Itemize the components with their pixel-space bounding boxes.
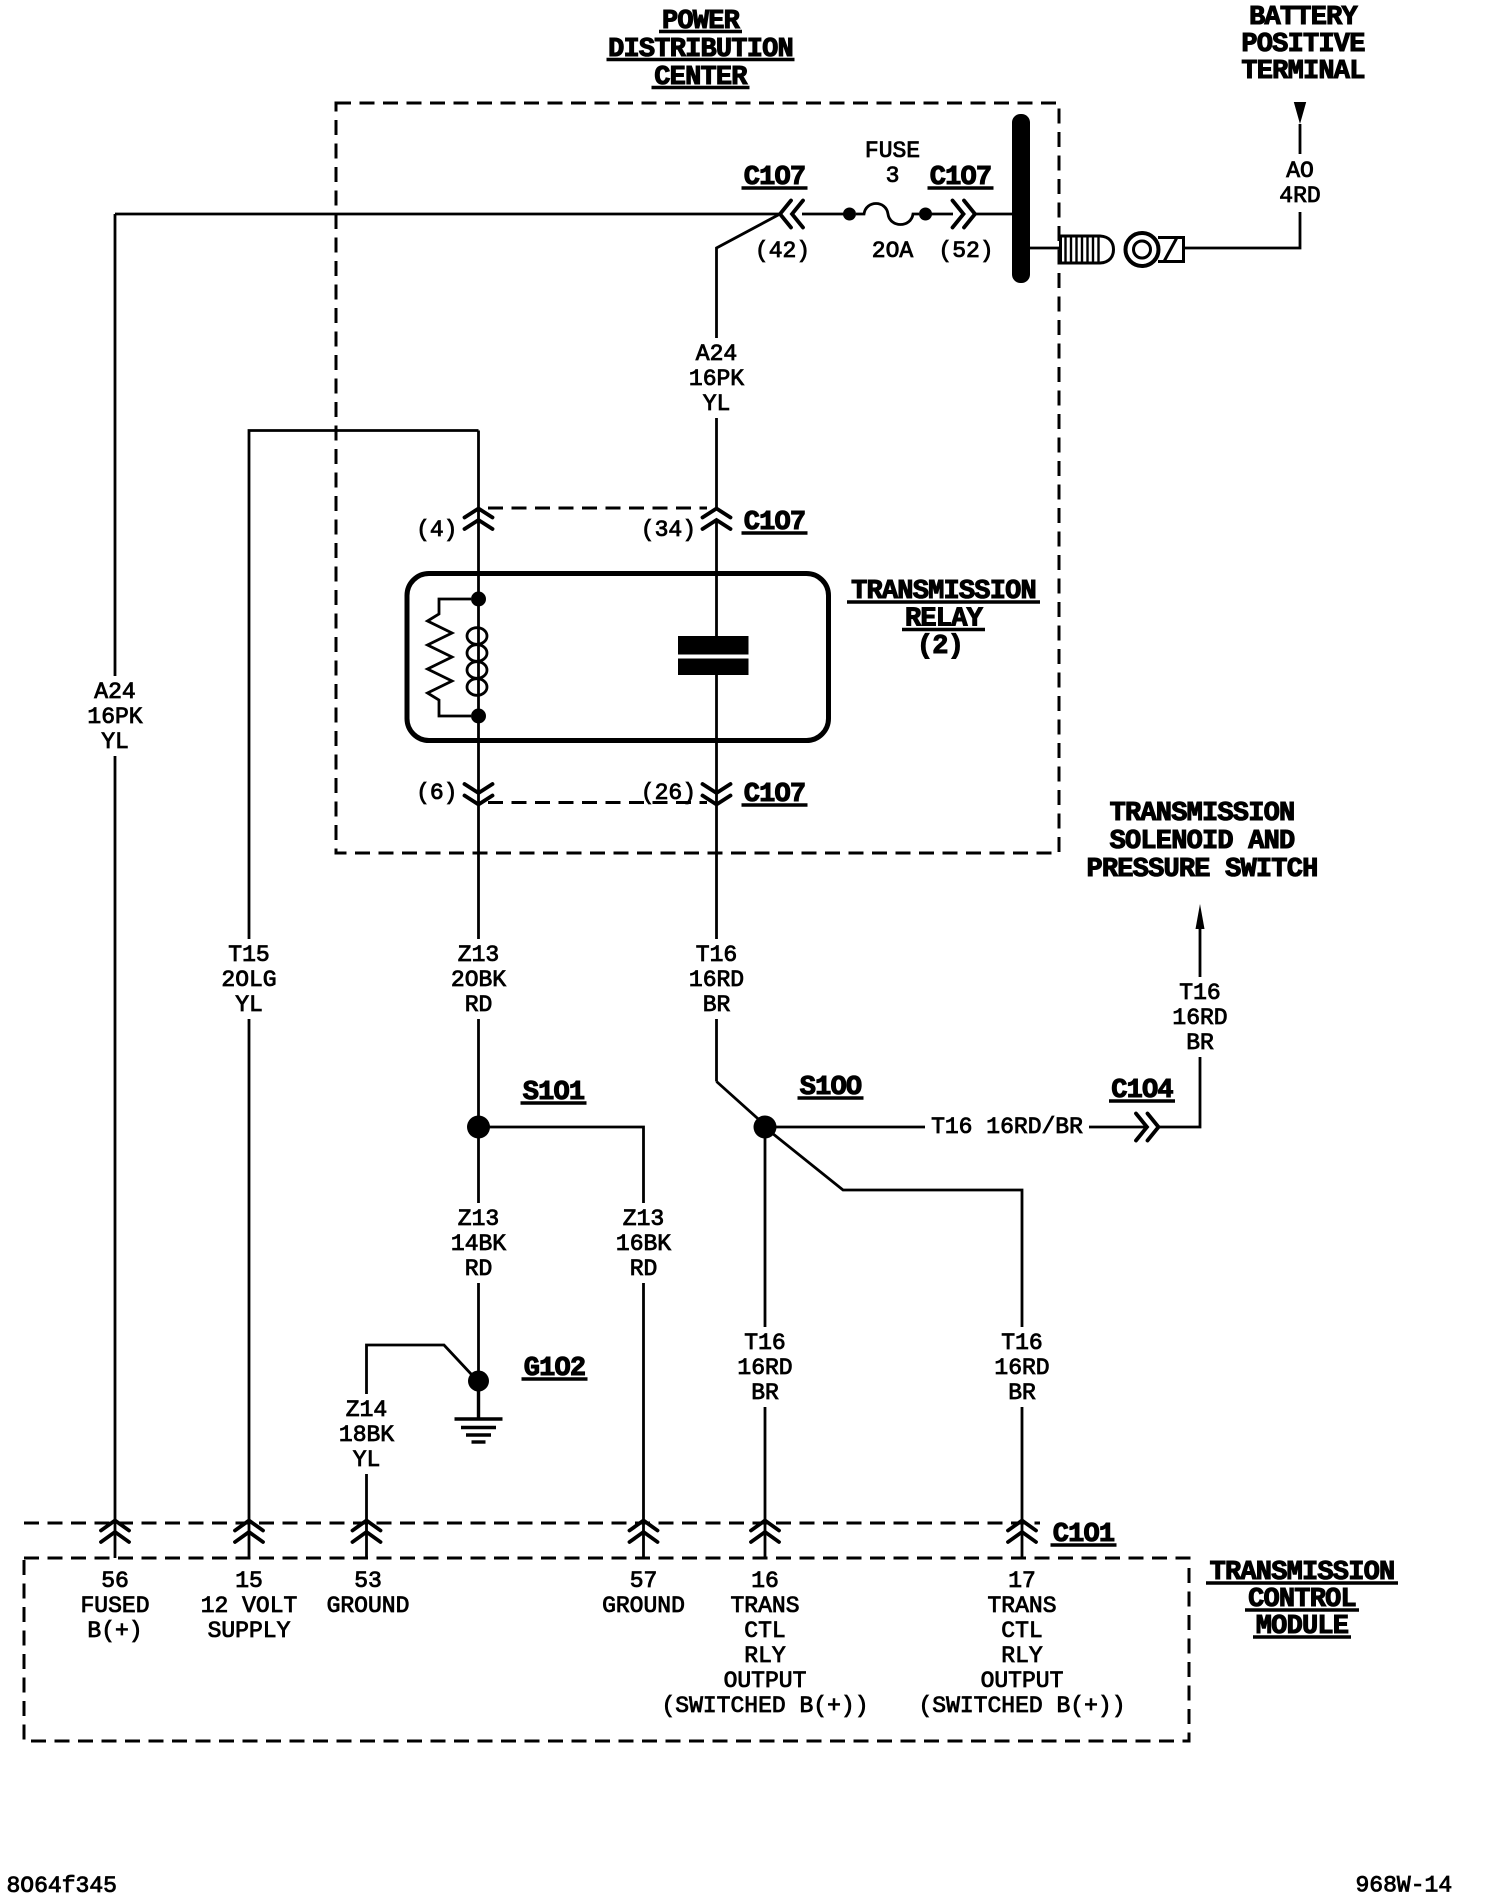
svg-text:2OA: 2OA: [872, 238, 914, 264]
TCM pin 56 labels: [80, 1568, 149, 1644]
svg-text:16RD: 16RD: [689, 967, 744, 993]
wire: main coil vertical Z13/relay: [477, 431, 480, 1382]
svg-text:4RD: 4RD: [1279, 183, 1320, 209]
svg-text:GROUND: GROUND: [602, 1593, 685, 1619]
svg-text:TERMINAL: TERMINAL: [1241, 57, 1364, 87]
svg-text:POSITIVE: POSITIVE: [1241, 30, 1365, 60]
svg-text:16RD: 16RD: [1172, 1005, 1227, 1031]
svg-text:15: 15: [235, 1568, 263, 1594]
connector C107 chevrons (42) pointing left: [780, 201, 803, 228]
svg-text:Z14: Z14: [346, 1397, 387, 1423]
connector C107 chevrons (6) pointing down: [465, 784, 493, 805]
connector C107 chevrons (4) pointing up: [465, 509, 493, 530]
svg-text:B(+): B(+): [87, 1618, 142, 1644]
connector designator C107 (26 row): [742, 780, 808, 810]
svg-text:2OBK: 2OBK: [451, 967, 506, 993]
wire: S100 to C104 horizontal: [765, 1126, 1147, 1129]
wire label T15 20LG YL: [221, 939, 277, 1019]
svg-text:TRANS: TRANS: [987, 1593, 1056, 1619]
battery positive terminal bus bar: [1012, 114, 1030, 283]
svg-text:GROUND: GROUND: [327, 1593, 410, 1619]
wire: C104 to solenoid riser: [1159, 929, 1201, 1127]
svg-text:BATTERY: BATTERY: [1249, 3, 1358, 33]
svg-text:OUTPUT: OUTPUT: [724, 1668, 807, 1694]
transmission relay outline: [407, 574, 829, 741]
svg-text:17: 17: [1008, 1568, 1036, 1594]
battery ring terminal eyelet: [1126, 233, 1184, 266]
svg-text:YL: YL: [235, 992, 263, 1018]
svg-text:(6): (6): [416, 780, 457, 806]
transmission control module dashed box: [24, 1558, 1189, 1741]
svg-text:OUTPUT: OUTPUT: [981, 1668, 1064, 1694]
svg-text:(34): (34): [641, 517, 696, 543]
wire label A24 16PK YL (relay feed): [689, 338, 744, 418]
connector designator C107 (top right): [928, 163, 994, 193]
svg-text:(SWITCHED B(+)): (SWITCHED B(+)): [661, 1693, 868, 1719]
svg-text:SOLENOID AND: SOLENOID AND: [1110, 827, 1295, 857]
svg-text:TRANS: TRANS: [730, 1593, 799, 1619]
svg-text:(4): (4): [416, 517, 457, 543]
node A0 4RD label: [1278, 154, 1324, 212]
relay suppression resistor zigzag: [428, 599, 472, 716]
connector C101 chevrons pin 17: [1008, 1521, 1036, 1543]
connector C101 chevrons pin 57: [630, 1521, 658, 1543]
connector C107 dashed line (6)/(26): [488, 801, 707, 804]
svg-text:YL: YL: [703, 391, 731, 417]
svg-text:16RD: 16RD: [737, 1355, 792, 1381]
wire: diagonal from C107 (42) down to relay branch: [717, 214, 781, 510]
relay coil upper junction node: [471, 592, 486, 607]
connector C107 chevrons (52) pointing right: [953, 201, 976, 228]
splice designator S100: [798, 1073, 864, 1103]
wire: ring terminal to battery corner: [1184, 124, 1301, 248]
svg-text:T16: T16: [1179, 980, 1220, 1006]
wire label T16 16RD BR (pin 17): [994, 1327, 1051, 1407]
svg-text:16RD: 16RD: [994, 1355, 1049, 1381]
svg-text:8O64f345: 8O64f345: [7, 1873, 117, 1898]
svg-text:TRANSMISSION: TRANSMISSION: [1110, 799, 1295, 829]
svg-text:16PK: 16PK: [87, 704, 142, 730]
relay contact bars: [678, 636, 749, 655]
wire label T16 16RD BR (solenoid): [1172, 977, 1229, 1057]
ground splice G102 node: [468, 1371, 489, 1392]
svg-text:12 VOLT: 12 VOLT: [201, 1593, 298, 1619]
relay coil loops: [467, 628, 487, 696]
connector designator C104: [1109, 1076, 1175, 1106]
svg-text:CTL: CTL: [1001, 1618, 1042, 1644]
svg-text:T16 16RD/BR: T16 16RD/BR: [931, 1114, 1083, 1140]
connector C101 chevrons pin 56: [101, 1521, 129, 1543]
svg-text:18BK: 18BK: [339, 1422, 394, 1448]
svg-text:3: 3: [886, 163, 900, 189]
connector C104 chevrons pointing right: [1136, 1114, 1159, 1141]
svg-text:A24: A24: [696, 341, 737, 367]
connector designator C101: [1051, 1520, 1117, 1550]
title: transmission relay (2): [847, 577, 1040, 662]
splice designator S101: [521, 1078, 587, 1108]
svg-text:BR: BR: [1008, 1380, 1036, 1406]
battery bolt (threaded stud): [1061, 236, 1114, 263]
svg-text:BR: BR: [1186, 1030, 1214, 1056]
wire: T15 horizontal supply branch: [249, 431, 479, 1559]
wire label A24 16PK YL (left): [87, 676, 142, 756]
svg-text:YL: YL: [101, 729, 129, 755]
relay coil lower junction node: [471, 709, 486, 724]
svg-text:T15: T15: [228, 942, 269, 968]
svg-text:PRESSURE SWITCH: PRESSURE SWITCH: [1086, 855, 1317, 885]
inline wire label T16 16RD/BR: [925, 1112, 1089, 1142]
TCM pin 57 labels: [602, 1568, 685, 1619]
svg-text:RLY: RLY: [1001, 1643, 1043, 1669]
connector C101 chevrons pin 16: [751, 1521, 779, 1543]
arrow to battery positive terminal: [1294, 102, 1306, 124]
title: battery positive terminal: [1241, 3, 1365, 87]
wire: top feed horizontal A24: [115, 213, 780, 216]
svg-text:RD: RD: [465, 1256, 493, 1282]
TCM pin 15 labels: [201, 1568, 298, 1644]
TCM pin 53 labels: [327, 1568, 410, 1619]
splice S100 node: [754, 1116, 777, 1139]
svg-text:T16: T16: [744, 1330, 785, 1356]
connector designator C107 (34 row): [742, 508, 808, 538]
wire label T16 16RD BR (pin 16): [737, 1327, 794, 1407]
title: transmission solenoid and pressure switch: [1086, 799, 1317, 885]
wire label Z13 20BK RD: [450, 939, 507, 1019]
fuse 3 20A element: [843, 208, 856, 221]
svg-text:(52): (52): [938, 238, 993, 264]
svg-text:(SWITCHED B(+)): (SWITCHED B(+)): [918, 1693, 1125, 1719]
connector designator C107 (top left): [742, 163, 808, 193]
svg-text:14BK: 14BK: [451, 1231, 506, 1257]
connector C101 dashed line: [24, 1522, 1040, 1525]
wire: S100 diagonal from relay: [717, 1082, 766, 1126]
svg-text:BR: BR: [751, 1380, 779, 1406]
wire: S100 lower branch to pin 17: [767, 1129, 1022, 1558]
svg-text:(2): (2): [917, 632, 963, 662]
connector C107 chevrons (34) pointing up: [703, 509, 731, 530]
svg-text:YL: YL: [353, 1447, 381, 1473]
svg-text:SUPPLY: SUPPLY: [208, 1618, 291, 1644]
svg-text:57: 57: [630, 1568, 658, 1594]
svg-text:FUSED: FUSED: [80, 1593, 149, 1619]
svg-text:16: 16: [751, 1568, 779, 1594]
wire: left vertical A24 to TCM pin 56: [114, 214, 117, 1558]
svg-text:T16: T16: [1001, 1330, 1042, 1356]
wire label Z14 18BK YL: [338, 1394, 395, 1474]
svg-text:AO: AO: [1286, 158, 1314, 184]
splice S101 node: [467, 1116, 490, 1139]
svg-text:RD: RD: [630, 1256, 658, 1282]
svg-text:BR: BR: [703, 992, 731, 1018]
ground designator G102: [522, 1354, 588, 1384]
wire: fuse feed segments: [802, 213, 844, 216]
connector C107 chevrons (26) pointing down: [703, 784, 731, 805]
svg-text:16PK: 16PK: [689, 366, 744, 392]
svg-text:FUSE: FUSE: [865, 138, 920, 164]
title: power distribution center: [607, 7, 795, 93]
svg-text:T16: T16: [696, 942, 737, 968]
svg-text:2OLG: 2OLG: [221, 967, 276, 993]
connector C107 dashed line (4)/(34): [488, 507, 707, 510]
svg-text:(42): (42): [755, 238, 810, 264]
wire: Z14 ground branch: [367, 1345, 473, 1558]
svg-text:A24: A24: [94, 679, 135, 705]
svg-text:RD: RD: [465, 992, 493, 1018]
svg-text:(26): (26): [641, 780, 696, 806]
svg-text:56: 56: [101, 1568, 129, 1594]
title: transmission control module: [1206, 1558, 1398, 1642]
wire: bar to bolt stub: [1030, 247, 1061, 250]
splice S101 branch wire: [479, 1127, 644, 1558]
connector C101 chevrons pin 15: [235, 1521, 263, 1543]
TCM pin 16 labels: [661, 1568, 868, 1719]
svg-text:CTL: CTL: [744, 1618, 785, 1644]
svg-text:Z13: Z13: [458, 942, 499, 968]
svg-text:Z13: Z13: [623, 1206, 664, 1232]
wire: S100 vertical to pin 16: [764, 1127, 767, 1558]
power distribution center dashed box: [336, 103, 1059, 853]
wire label T16 16RD BR (relay output): [688, 939, 745, 1019]
ground symbol G102: [455, 1381, 503, 1442]
svg-text:968W-14: 968W-14: [1356, 1873, 1453, 1898]
svg-text:16BK: 16BK: [616, 1231, 671, 1257]
connector C101 chevrons pin 53: [353, 1521, 381, 1543]
arrow to transmission solenoid: [1196, 904, 1205, 929]
wire: relay contact vertical T16: [715, 521, 718, 637]
svg-text:53: 53: [354, 1568, 382, 1594]
wire label Z13 16BK RD: [615, 1203, 672, 1283]
TCM pin 17 labels: [918, 1568, 1125, 1719]
svg-text:RLY: RLY: [744, 1643, 786, 1669]
wire label Z13 14BK RD: [450, 1203, 507, 1283]
svg-text:Z13: Z13: [458, 1206, 499, 1232]
